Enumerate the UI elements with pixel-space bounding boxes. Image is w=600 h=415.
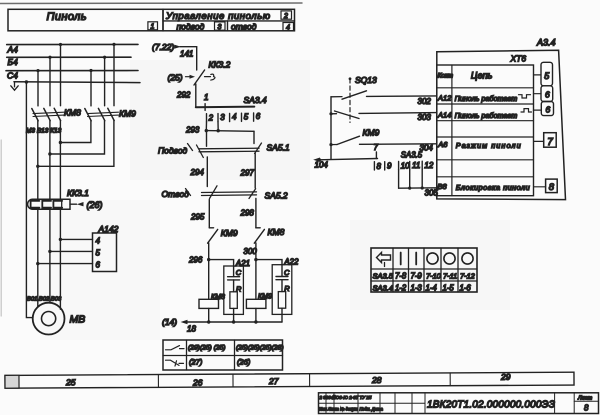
svg-text:КМ9: КМ9: [363, 128, 380, 138]
junction 296 RC tap: [207, 258, 210, 261]
svg-text:2: 2: [208, 113, 214, 122]
svg-text:Управление пинолью: Управление пинолью: [165, 11, 271, 22]
svg-text:26: 26: [192, 377, 203, 387]
svg-text:КМ8: КМ8: [64, 108, 81, 118]
svg-text:7: 7: [374, 143, 379, 152]
svg-text:6: 6: [96, 261, 101, 270]
svg-text:297: 297: [240, 168, 255, 177]
terminal 7: [534, 133, 556, 148]
wire SA3.4 pin2 to node 293: [205, 122, 207, 131]
svg-text:Изм Лист № докум. Подп. Дата: Изм Лист № докум. Подп. Дата: [319, 407, 384, 412]
svg-text:294: 294: [190, 168, 205, 177]
junction bus 304: [329, 143, 332, 146]
svg-text:1-4: 1-4: [426, 284, 438, 293]
svg-text:8: 8: [549, 182, 555, 193]
svg-text:SA3.5: SA3.5: [373, 272, 394, 281]
svg-text:9: 9: [387, 162, 392, 171]
svg-text:5: 5: [96, 249, 101, 258]
header box Управление пинолью: [163, 9, 295, 31]
svg-text:А6: А6: [437, 140, 448, 149]
switch SA5.1: [158, 142, 290, 157]
wire PE drop to motor: [26, 82, 32, 318]
terminal 6 upper: [534, 86, 553, 102]
off-page arrow (25): [168, 73, 196, 83]
RC network А21: [224, 259, 250, 322]
svg-text:КМ8: КМ8: [211, 294, 225, 301]
svg-text:27: 27: [268, 376, 279, 386]
device А142: [93, 224, 119, 272]
junction rail КМ8 coil: [207, 320, 210, 323]
svg-text:А4: А4: [7, 45, 19, 55]
svg-text:(29)(25) (25): (29)(25) (25): [188, 345, 226, 352]
svg-text:КМ9: КМ9: [258, 293, 272, 300]
wire 300: [243, 243, 257, 299]
svg-text:7-9: 7-9: [411, 272, 423, 281]
wire phase3 КК3.1 to motor: [59, 209, 61, 309]
svg-text:С: С: [284, 268, 290, 277]
svg-text:SQ13: SQ13: [355, 75, 377, 85]
svg-text:1-6: 1-6: [460, 284, 472, 293]
svg-text:2: 2: [283, 13, 288, 20]
svg-text:Отвод: Отвод: [162, 189, 190, 199]
svg-text:4: 4: [96, 237, 101, 246]
junction x37.2 y166.3: [36, 165, 39, 168]
svg-text:Разжим пиноли: Разжим пиноли: [456, 141, 522, 150]
off-page arrow (7.22): [152, 42, 197, 52]
wire 104: [313, 158, 377, 170]
wire КМ8 pole1 down: [37, 121, 39, 200]
wire to А142 pin4: [60, 238, 92, 240]
svg-text:298: 298: [240, 209, 255, 218]
svg-text:Пиноль работает: Пиноль работает: [455, 111, 518, 120]
contact КМ9 aux: [208, 228, 238, 243]
junction rail А21: [232, 320, 235, 323]
node 293: [185, 125, 254, 134]
svg-text:7-10: 7-10: [426, 272, 442, 281]
svg-text:141: 141: [180, 50, 193, 59]
wire phase1 КК3.1 to motor: [37, 209, 39, 307]
svg-text:SA3.5: SA3.5: [401, 151, 423, 160]
contactor КМ9 main contacts: [85, 108, 136, 121]
svg-text:7-8: 7-8: [395, 272, 407, 281]
svg-text:29: 29: [500, 372, 511, 382]
wire 303: [359, 113, 437, 122]
junction А4 x60.5: [59, 43, 62, 46]
svg-text:1: 1: [204, 93, 208, 102]
svg-text:6: 6: [256, 112, 261, 121]
svg-text:Блокировка пиноли: Блокировка пиноли: [456, 183, 531, 192]
wire КМ9 pole1 to node: [60, 121, 91, 143]
header zone ref 4: [283, 23, 294, 32]
svg-text:Подвод: Подвод: [158, 146, 188, 156]
contactor КМ8 main contacts: [32, 108, 81, 121]
switch SA5.2: [162, 186, 288, 201]
svg-text:В01 В02 В03: В01 В02 В03: [27, 297, 62, 303]
junction x37.2 y263.6: [36, 262, 39, 265]
junction Б4 x50: [48, 56, 51, 59]
svg-text:1-5: 1-5: [443, 284, 455, 293]
svg-text:КК3.1: КК3.1: [67, 188, 89, 198]
bottom zone strip: [5, 371, 574, 388]
svg-text:В8: В8: [438, 182, 448, 191]
bottom rail wire 18: [162, 317, 282, 334]
right bus vertical: [330, 97, 332, 160]
header zone ref 3: [215, 22, 226, 31]
svg-text:МВ: МВ: [70, 314, 86, 326]
svg-text:8: 8: [377, 162, 382, 171]
svg-text:подвод: подвод: [177, 21, 205, 31]
wire pin11 drop: [409, 170, 411, 188]
svg-text:1ВК20Т1.02.000000.000ЭЗ: 1ВК20Т1.02.000000.000ЭЗ: [427, 400, 555, 411]
RC network А22: [272, 257, 299, 322]
svg-text:А14: А14: [437, 110, 451, 119]
wire С4 to КМ8 pole1: [37, 71, 39, 106]
svg-text:R: R: [284, 284, 290, 293]
svg-text:25: 25: [65, 377, 76, 387]
wire SA3.4 pin3 to node 293: [217, 122, 219, 131]
junction x61.8 y142.5: [59, 141, 62, 144]
junction pin3 node293: [217, 129, 220, 132]
svg-text:(26): (26): [237, 358, 251, 367]
svg-text:SA3.4: SA3.4: [244, 95, 267, 105]
wire to А142 pin5: [50, 250, 93, 252]
switch SA3.4: [196, 93, 267, 122]
bus А4: [7, 44, 139, 54]
svg-text:SA3.4: SA3.4: [373, 284, 393, 293]
header box Пиноль: [8, 9, 163, 31]
svg-text:Цепь: Цепь: [471, 70, 493, 80]
junction PE x26.6: [25, 80, 28, 83]
coil КМ9: [246, 293, 272, 322]
terminal 5: [534, 62, 553, 86]
svg-text:1-2: 1-2: [395, 284, 407, 293]
svg-text:1-3: 1-3: [411, 284, 423, 293]
svg-text:ХТ6: ХТ6: [510, 54, 527, 64]
svg-text:С4: С4: [7, 70, 18, 80]
wire pin12 drop: [421, 170, 423, 189]
svg-text:SA5.1: SA5.1: [267, 142, 290, 152]
wire to А21: [209, 260, 234, 266]
svg-text:302: 302: [418, 97, 432, 106]
svg-text:(7.22): (7.22): [152, 42, 174, 52]
wire 304: [360, 143, 437, 152]
junction x61.8 y239.4: [59, 238, 62, 241]
svg-text:(26): (26): [87, 200, 103, 210]
svg-text:(25)(25)(25)(28): (25)(25)(25)(28): [236, 345, 284, 352]
svg-text:5: 5: [244, 112, 249, 121]
coil КМ8: [199, 294, 225, 322]
svg-text:А3.4: А3.4: [536, 38, 556, 48]
svg-text:А12: А12: [437, 94, 452, 103]
wire 302: [367, 96, 437, 106]
contact КМ9 right: [331, 128, 380, 145]
svg-text:7-12: 7-12: [460, 272, 475, 281]
svg-text:Конт: Конт: [438, 74, 453, 80]
wire КМ8 pole2 down: [49, 121, 51, 200]
svg-text:6: 6: [545, 90, 550, 100]
svg-text:4: 4: [232, 113, 237, 122]
junction С4 x91: [89, 69, 92, 72]
svg-text:295: 295: [190, 212, 205, 221]
svg-text:(27): (27): [189, 358, 203, 367]
contact usage table: [163, 340, 284, 370]
terminal 6 lower: [534, 102, 554, 116]
wire 297: [240, 154, 256, 189]
bus Б4: [7, 57, 131, 67]
svg-text:292: 292: [176, 91, 191, 100]
svg-text:11: 11: [412, 161, 420, 170]
wire Б4 to КМ8 pole2: [49, 57, 51, 106]
svg-text:КМ8: КМ8: [268, 227, 285, 237]
switch position table: [371, 248, 477, 293]
svg-text:R: R: [236, 284, 242, 293]
svg-text:28: 28: [371, 375, 382, 385]
svg-text:А142: А142: [98, 224, 119, 234]
svg-text:296: 296: [188, 256, 203, 265]
wire КМ9 pole3 to node: [38, 121, 114, 167]
svg-text:отвод: отвод: [231, 21, 257, 31]
svg-text:М3 В13 К13: М3 В13 К13: [26, 128, 62, 135]
junction x49.5 y251.4: [48, 250, 51, 253]
junction 300 RC tap: [254, 258, 257, 261]
wire pin10 drop: [398, 170, 400, 188]
junction rail КМ9 coil: [254, 320, 257, 323]
wire 292: [176, 84, 196, 107]
row В8 Блокировка пиноли: [438, 182, 531, 192]
junction x49.5 y154: [48, 152, 51, 155]
svg-text:А22: А22: [283, 257, 299, 266]
svg-text:293: 293: [185, 125, 200, 134]
svg-text:А21: А21: [235, 259, 250, 268]
motor МВ: [33, 303, 86, 335]
ground: [11, 82, 18, 90]
svg-text:Пиноль: Пиноль: [47, 11, 87, 23]
row А12 Пиноль работает: [437, 94, 531, 104]
SQ13 contact 1: [331, 91, 367, 99]
wire А4 to КМ8 pole3: [60, 45, 62, 106]
switch SA3.5: [374, 143, 434, 171]
wire Б4 to КМ9 pole2: [104, 57, 106, 106]
wire to А142 pin6: [38, 263, 93, 265]
wire 293 right drop: [253, 131, 255, 143]
wire А4 to КМ9 pole3: [113, 44, 115, 105]
svg-text:3: 3: [220, 113, 225, 122]
connector block А3.4: [437, 38, 566, 200]
wire to А22: [256, 260, 282, 265]
arrow to (26): [70, 200, 103, 210]
svg-text:1: 1: [151, 24, 155, 31]
junction pin2 node293: [205, 129, 208, 132]
title block: [319, 393, 599, 414]
svg-text:2 3804/ЮЗ-Ю 2-97 ТУ 25: 2 3804/ЮЗ-Ю 2-97 ТУ 25: [319, 395, 372, 400]
bus PE: [14, 81, 140, 84]
header zone ref 2: [281, 11, 292, 20]
svg-text:10: 10: [401, 161, 410, 170]
svg-text:3: 3: [218, 24, 222, 31]
row А6 Разжим пиноли: [437, 140, 521, 150]
junction bus 303: [329, 112, 332, 115]
thermal contact КК3.2: [194, 60, 231, 86]
wire 293 left drop: [206, 131, 208, 147]
wire 141: [180, 47, 197, 70]
svg-text:7: 7: [547, 137, 553, 148]
svg-text:303: 303: [418, 113, 432, 122]
wire 305: [399, 188, 439, 198]
svg-text:Б4: Б4: [8, 57, 19, 67]
wire 296: [188, 243, 209, 299]
svg-text:Лист: Лист: [577, 396, 593, 402]
wire phase2 КК3.1 to motor: [49, 209, 51, 303]
SQ13 contact 2: [331, 111, 359, 119]
svg-text:7-11: 7-11: [443, 272, 457, 281]
junction pin12: [421, 186, 424, 189]
junction А4 x114: [112, 43, 115, 46]
wire 295: [190, 200, 209, 228]
terminal 8: [534, 179, 557, 193]
svg-text:КМ9: КМ9: [119, 109, 136, 119]
svg-text:КК3.2: КК3.2: [209, 60, 231, 70]
bus С4: [6, 70, 138, 80]
wire КМ9 pole2 to node: [50, 121, 105, 154]
wire 298: [240, 199, 256, 228]
svg-text:8: 8: [584, 404, 589, 413]
wire 294: [190, 157, 208, 187]
terminal table ХТ6: [437, 65, 534, 196]
svg-text:Пиноль работает: Пиноль работает: [455, 94, 518, 103]
svg-text:12: 12: [424, 161, 433, 170]
svg-text:SA5.2: SA5.2: [265, 190, 288, 200]
svg-text:(25): (25): [168, 73, 183, 83]
limit switch SQ13: [349, 75, 377, 122]
contact КМ8 aux: [254, 227, 284, 243]
row А14 Пиноль работает: [437, 109, 532, 120]
svg-text:6: 6: [546, 105, 551, 115]
svg-text:104: 104: [315, 161, 329, 170]
svg-text:18: 18: [187, 325, 196, 334]
svg-text:4: 4: [286, 25, 290, 32]
junction Б4 x104.6: [103, 56, 106, 59]
wire КМ8 pole3 down: [59, 121, 61, 200]
svg-text:С: С: [236, 268, 242, 277]
junction С4 x38: [36, 69, 39, 72]
svg-text:(14): (14): [162, 317, 177, 327]
thermal overload КК3.1: [28, 188, 90, 209]
junction pin11: [408, 187, 411, 190]
svg-text:КМ9: КМ9: [221, 228, 238, 238]
header zone ref 1: [148, 22, 158, 31]
wire С4 to КМ9 pole1: [90, 71, 92, 106]
